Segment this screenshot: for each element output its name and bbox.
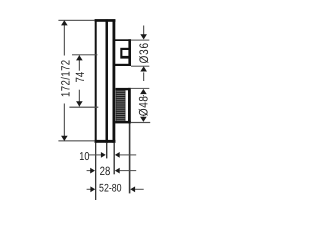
dim 52-80 leader left xyxy=(87,189,91,190)
arrow O36 down (outside top) xyxy=(140,34,147,39)
ext line below handle front xyxy=(129,123,131,193)
arrow 74 down xyxy=(76,101,83,106)
handle top edge xyxy=(113,39,131,41)
svg-text:52-80: 52-80 xyxy=(99,183,122,195)
ext line below plate right xyxy=(113,143,114,175)
handle right edge xyxy=(128,39,131,66)
arrow 10 left-pointing xyxy=(115,152,120,158)
wall plate middle line xyxy=(105,19,108,142)
ext line below plate left xyxy=(95,143,96,200)
arrow 52-80 left-pointing xyxy=(130,186,135,192)
ext line handle bottom xyxy=(131,66,149,67)
arrow 28 right-pointing xyxy=(90,168,95,174)
dim line 172/172 lower segment xyxy=(64,103,65,140)
arrow 10 right-pointing xyxy=(101,152,106,158)
wall plate right edge xyxy=(112,19,115,142)
svg-text:28: 28 xyxy=(100,164,111,178)
svg-text:74: 74 xyxy=(73,72,87,83)
arrow 74 up xyxy=(76,55,83,60)
arrow 172 down xyxy=(61,136,68,141)
dim line 74 upper segment xyxy=(79,55,80,70)
ext line knob bottom xyxy=(131,122,151,123)
arrow 172 up xyxy=(61,20,68,25)
ext line 74 top (handle centerline) xyxy=(72,54,97,55)
svg-text:Ø48: Ø48 xyxy=(136,95,150,116)
dim 10 leader left xyxy=(89,154,102,155)
svg-text:10: 10 xyxy=(79,151,89,163)
wall plate top cap xyxy=(95,19,116,22)
ext line knob top xyxy=(131,88,150,89)
ext line 172 top xyxy=(58,20,94,21)
arrow O48 down (inside bottom) xyxy=(140,117,147,122)
arrow 52-80 right-pointing xyxy=(90,186,95,192)
handle bottom edge xyxy=(113,64,131,66)
wall plate bottom cap xyxy=(95,140,116,143)
ext line below plate middle xyxy=(106,143,107,159)
knob bottom edge xyxy=(115,121,131,124)
dim 10 leader right xyxy=(119,154,136,155)
knob top edge xyxy=(116,88,131,90)
arrow O48 up (inside top) xyxy=(140,89,147,94)
knob knurl texture xyxy=(116,90,126,121)
dim 28 leader right xyxy=(119,170,136,171)
dim line 74 lower segment xyxy=(79,90,80,107)
dim 28 leader left xyxy=(87,170,91,171)
dim line O48 lower stub xyxy=(143,115,144,116)
knob right edge xyxy=(128,88,131,124)
handle notch square xyxy=(120,48,131,59)
dim line O36 bottom tail xyxy=(143,72,144,81)
wall plate left edge xyxy=(95,19,97,142)
arrow O36 up (outside bottom) xyxy=(140,66,147,71)
ext line 74 bottom (knob centerline) xyxy=(69,107,98,108)
ext line 172 bottom xyxy=(58,140,94,141)
dim line O36 top tail xyxy=(143,26,144,35)
dim line 172/172 upper segment xyxy=(64,21,65,56)
svg-text:172/172: 172/172 xyxy=(58,59,72,97)
dim line O48 upper stub xyxy=(143,95,144,97)
dim 52-80 leader right xyxy=(135,189,144,190)
arrow 28 left-pointing xyxy=(115,168,120,174)
svg-text:Ø36: Ø36 xyxy=(137,42,151,63)
ext line handle top xyxy=(131,40,149,41)
